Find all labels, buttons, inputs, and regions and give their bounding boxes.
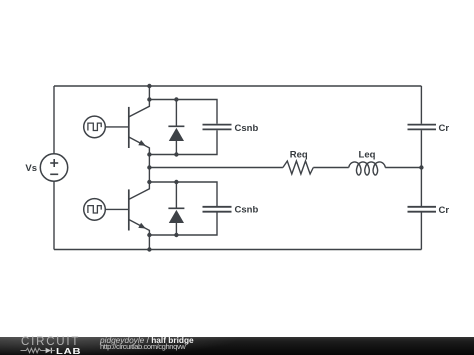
CircuitLab logo text LAB [56, 348, 81, 355]
svg-text:Leq: Leq [359, 149, 376, 160]
wire mid rail right [385, 167, 421, 169]
wire cell2 top rail [149, 182, 217, 206]
transistor Q1 [129, 100, 150, 155]
wire bottom rail [54, 249, 421, 251]
node right mid junction [419, 165, 423, 169]
wire bridge vertical mid [148, 155, 150, 183]
svg-text:Csnb: Csnb [235, 123, 259, 134]
node cell1 collector [147, 97, 151, 101]
capacitor Csnb2 [203, 207, 232, 212]
wire right rail upper [420, 86, 422, 124]
pulse source V2 [84, 199, 106, 221]
wire left rail upper [53, 86, 55, 154]
node cell2 emitter [147, 233, 151, 237]
node bottom rail junction [147, 247, 151, 251]
voltage source Vs [40, 154, 67, 181]
diode D2 [168, 182, 184, 235]
capacitor Cr2 [408, 207, 437, 212]
wire right rail middle [420, 130, 422, 206]
wire left rail lower [53, 181, 55, 249]
wire cell1 bottom rail [149, 130, 217, 154]
wire bridge vertical upper [148, 86, 150, 100]
node cell1 emitter [147, 152, 151, 156]
wire base Q2 [105, 208, 129, 210]
wire cell2 bottom rail [149, 213, 217, 236]
pulse source V1 [84, 116, 106, 138]
wire top rail [54, 85, 421, 87]
node cell1 diode top [174, 97, 178, 101]
CircuitLab logo schematic glyph [20, 347, 56, 355]
inductor Leq [349, 162, 386, 175]
wire mid rail center [313, 167, 348, 169]
resistor Req [283, 161, 313, 174]
node cell2 diode bottom [174, 233, 178, 237]
wire mid rail left [149, 167, 283, 169]
capacitor Csnb1 [203, 125, 232, 130]
wire cell1 top rail [149, 100, 217, 124]
svg-text:Vs: Vs [25, 163, 37, 174]
node top rail junction [147, 84, 151, 88]
node cell2 diode top [174, 180, 178, 184]
capacitor Cr1 [408, 125, 437, 130]
diode D1 [168, 100, 184, 155]
wire right rail lower [420, 213, 422, 250]
wire base Q1 [105, 126, 129, 128]
svg-text:Cr: Cr [439, 123, 450, 134]
transistor Q2 [129, 182, 150, 235]
node cell1 diode bottom [174, 152, 178, 156]
node mid rail junction [147, 165, 151, 169]
svg-text:Csnb: Csnb [235, 205, 259, 216]
svg-text:Req: Req [290, 149, 308, 160]
wire bridge vertical lower [148, 235, 150, 250]
CircuitLab logo text CIRCUIT [21, 338, 80, 347]
node cell2 collector [147, 180, 151, 184]
svg-text:Cr: Cr [439, 205, 450, 216]
